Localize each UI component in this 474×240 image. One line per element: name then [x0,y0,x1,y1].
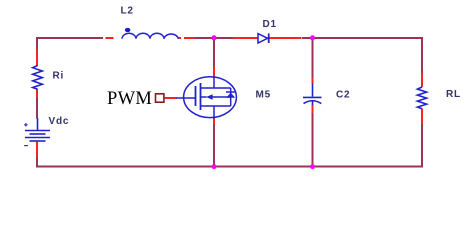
svg-text:Ri: Ri [53,71,65,82]
inductor L2 [122,33,178,39]
pin lead RL bottom [421,109,423,124]
svg-text:D1: D1 [263,19,277,30]
wire top-left horizontal [36,37,103,39]
wire top-right horizontal [302,37,423,39]
pin lead RL top [421,73,423,87]
wire C2 lower vertical [312,113,314,167]
svg-text:C2: C2 [336,90,350,101]
PWM gate connector square [156,94,164,102]
wire drain vertical [213,38,215,66]
pin lead L2 left [106,37,114,39]
wire C2 upper vertical [312,38,314,78]
pin lead Ri bottom [36,89,38,98]
pin lead Ri top [36,49,38,66]
junction dot bottom source [212,164,217,169]
wire bottom horizontal [36,166,423,168]
pin lead M5 drain [213,66,215,78]
svg-text:RL: RL [446,89,461,100]
svg-text:PWM: PWM [107,89,152,109]
pin lead D1 cathode [270,37,302,39]
wire top-middle horizontal [195,37,233,39]
svg-text:M5: M5 [256,89,272,100]
pin lead D1 anode [233,37,258,39]
inductor L2 polarity dot [125,28,131,32]
wire RL upper vertical [421,38,423,73]
wire left rail upper [36,37,38,49]
wire left rail lower [36,157,38,168]
resistor Ri [33,66,43,90]
wire RL lower vertical [421,124,423,167]
svg-text:Vdc: Vdc [49,116,70,127]
capacitor C2 [303,84,322,106]
resistor RL [417,87,426,109]
pin lead M5 gate [165,97,177,99]
diode D1 [258,34,269,44]
junction dot top drain [212,35,217,40]
wire left rail middle [36,98,38,119]
pin lead C2 bottom [312,105,314,114]
junction dot top C2 [310,35,315,40]
svg-text:L2: L2 [121,5,134,16]
transistor M5 MOSFET [176,77,236,119]
pin lead M5 source [213,118,215,124]
pin lead C2 top [312,78,314,84]
wire source vertical [213,124,215,167]
pin lead L2 right [179,37,196,39]
pin lead Vdc bottom [36,142,38,158]
source Vdc battery [24,118,50,146]
junction dot bottom C2 [310,164,315,169]
